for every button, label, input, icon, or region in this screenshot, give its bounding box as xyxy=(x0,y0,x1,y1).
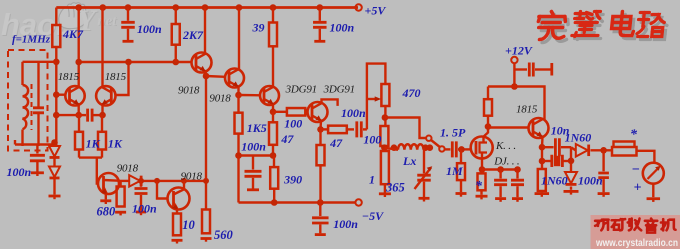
transistor Q6 3DG91 xyxy=(308,102,328,122)
svg-text:1M: 1M xyxy=(446,164,463,178)
rail junction Q1 collector xyxy=(75,4,82,11)
node -5V bypass xyxy=(317,199,324,206)
wire switch to C 1.5P xyxy=(445,148,451,150)
svg-text:1K5: 1K5 xyxy=(247,121,267,135)
variable capacitor 365 xyxy=(423,148,425,174)
resistor mid box xyxy=(380,126,388,146)
capacitor C4 100n xyxy=(252,156,254,170)
capacitor +12V bypass xyxy=(514,68,527,70)
wire collector column x206 xyxy=(205,76,207,210)
svg-text:1N60: 1N60 xyxy=(565,131,592,145)
resistor 1M xyxy=(460,149,462,163)
svg-text:9018: 9018 xyxy=(181,171,203,183)
capacitor C1 100n xyxy=(127,8,129,21)
svg-text:1815: 1815 xyxy=(58,71,80,83)
+12V terminal xyxy=(511,57,517,63)
svg-text:470: 470 xyxy=(402,86,421,100)
wire xtal top branch xyxy=(542,146,554,148)
svg-text:9018: 9018 xyxy=(117,163,139,175)
capacitor 100 xyxy=(347,128,354,130)
wire diode to Q9 xyxy=(143,180,208,182)
svg-text:100: 100 xyxy=(284,116,302,130)
svg-text:*: * xyxy=(475,179,483,194)
node +12V xyxy=(511,83,518,90)
rail junction R 2K7 xyxy=(172,4,179,11)
transistor Q2 1815 xyxy=(96,86,115,105)
wire 4K7 to bias column xyxy=(55,47,57,145)
node source bus xyxy=(479,166,486,173)
node FET gate xyxy=(458,146,465,153)
resistor 2K7 xyxy=(175,8,177,25)
wire Q5-Q6 base link xyxy=(273,111,287,113)
inductor L1 coil xyxy=(21,62,23,85)
resistor 1K5 xyxy=(237,95,239,113)
svg-text:390: 390 xyxy=(283,172,302,186)
node xtal B xyxy=(539,158,546,165)
resistor xtal bias xyxy=(538,169,546,191)
wire pot output to switch xyxy=(385,118,426,139)
wire Q7 emitter drop xyxy=(541,137,544,147)
capacitor 100n (tank bottom) xyxy=(36,145,38,154)
svg-text:680: 680 xyxy=(97,205,117,219)
wire Q2 emitter xyxy=(101,105,103,116)
node 2K7 bottom xyxy=(172,59,179,66)
wire 1K common bus xyxy=(79,156,102,158)
wire Q9 base drop xyxy=(157,181,168,199)
svg-text:100n: 100n xyxy=(330,21,355,35)
tank top wire xyxy=(23,61,57,63)
transistor Q3 9018 xyxy=(192,53,212,73)
resistor 680 xyxy=(119,181,121,187)
wire Q2 collector riser xyxy=(101,8,103,88)
tank bottom wire xyxy=(15,143,56,145)
wire to series diode xyxy=(571,147,576,150)
wire Q2 base riser xyxy=(116,62,129,95)
node Lx right xyxy=(427,144,434,151)
wire Q4-Q5 base link xyxy=(239,94,261,97)
svg-text:100n: 100n xyxy=(241,140,266,154)
wire Q4 emitter xyxy=(237,87,239,95)
svg-text:net: net xyxy=(97,13,117,29)
node C3 top xyxy=(138,178,144,184)
capacitor C5 100n bypass xyxy=(319,203,321,217)
+5V rail xyxy=(56,6,358,9)
svg-text:+5V: +5V xyxy=(365,4,387,18)
wire Q3 collector riser xyxy=(204,8,206,54)
wire collector cross-couple Q1 to Q3 base xyxy=(79,61,192,63)
svg-text:47: 47 xyxy=(280,132,294,146)
svg-text:365: 365 xyxy=(385,181,405,195)
-5V terminal xyxy=(355,199,361,205)
svg-text:560: 560 xyxy=(214,228,234,242)
transistor Q8 9018 xyxy=(98,173,119,194)
watermark char 3 xyxy=(645,219,657,233)
+5V terminal xyxy=(355,4,361,10)
node FET drain / Q7 base xyxy=(485,123,492,130)
resistor 47 second xyxy=(321,128,329,130)
wire Q4 collector riser xyxy=(238,8,240,70)
potentiometer 470 xyxy=(381,84,389,106)
node Q1 collector tap xyxy=(75,59,82,66)
watermark char 1 xyxy=(612,219,625,230)
wire bus2 -5V xyxy=(237,156,239,203)
svg-text:+12V: +12V xyxy=(505,44,533,58)
svg-text:1. 5P: 1. 5P xyxy=(440,126,466,140)
svg-text:f=1MHz: f=1MHz xyxy=(12,34,51,46)
node diode chain top xyxy=(51,139,58,146)
wire Q9 emitter xyxy=(176,209,178,214)
node emitter tie xyxy=(53,112,60,119)
node 560 top xyxy=(203,178,209,184)
wire bus to Q8 base xyxy=(97,158,98,184)
node Q4 emitter xyxy=(235,92,242,99)
wire Q9 collector riser xyxy=(183,181,185,189)
crystal element xyxy=(552,155,563,167)
switch lever xyxy=(431,140,440,147)
node Lx left xyxy=(383,146,385,148)
svg-text:1815: 1815 xyxy=(516,104,538,116)
svg-text:100n: 100n xyxy=(132,202,157,216)
capacitor C8 emitter-emitter xyxy=(79,114,86,116)
svg-text:1: 1 xyxy=(369,173,375,187)
resistor 1 xyxy=(381,151,389,184)
resistor 1K right xyxy=(101,115,103,132)
wire Q3 emitter xyxy=(204,71,207,76)
pot wiper arrow xyxy=(367,98,378,100)
svg-text:K. . .: K. . . xyxy=(495,140,516,152)
watermark char 0 xyxy=(595,220,608,231)
watermark haoDIY.net xyxy=(1,3,118,43)
node detector out xyxy=(600,147,607,154)
transistor Q4 9018 xyxy=(225,69,244,88)
capacitor src2 xyxy=(516,170,518,179)
svg-text:100n: 100n xyxy=(578,174,603,188)
svg-text:−: − xyxy=(632,163,640,178)
title char 电 xyxy=(614,15,639,39)
diode D3 xyxy=(129,175,140,187)
svg-text:1K: 1K xyxy=(108,137,123,151)
node bus1 right xyxy=(270,152,277,159)
node bus1 left xyxy=(235,152,242,159)
svg-text:9018: 9018 xyxy=(178,85,200,97)
title char 完 xyxy=(539,15,569,43)
title char 整 xyxy=(574,15,603,40)
watermark fist glyph xyxy=(59,3,88,29)
svg-text:4K7: 4K7 xyxy=(62,27,84,41)
capacitor src1 xyxy=(499,170,501,179)
FET K/DJ detector xyxy=(471,137,493,159)
wire Q6 collector stub xyxy=(322,99,338,106)
svg-text:100n: 100n xyxy=(341,106,366,120)
title 完整电路 xyxy=(536,12,668,43)
dashed box crystal tank xyxy=(8,50,48,151)
svg-text:DJ. . .: DJ. . . xyxy=(493,156,519,168)
node E1 xyxy=(75,112,82,119)
svg-text:3DG91: 3DG91 xyxy=(323,83,355,95)
svg-text:Lx: Lx xyxy=(402,154,416,168)
svg-text:www.crystalradio.cn: www.crystalradio.cn xyxy=(595,238,678,249)
svg-text:2K7: 2K7 xyxy=(182,28,204,42)
svg-text:39: 39 xyxy=(252,21,265,35)
node tank top / bias column xyxy=(53,59,60,66)
capacitor tank xyxy=(37,62,39,107)
node Q6 emitter xyxy=(317,126,324,133)
watermark box crystalradio xyxy=(591,215,680,249)
node Q9 collector xyxy=(181,178,187,184)
diode 1N60 series xyxy=(576,144,588,157)
node Q3 emitter xyxy=(203,73,210,80)
wire riser to pot top xyxy=(367,64,386,130)
wire FET source xyxy=(481,153,483,170)
node Q9 base xyxy=(154,178,160,184)
wire Q3-Q4 base link xyxy=(206,75,225,78)
node Q2 base tap xyxy=(125,59,132,66)
capacitor out 100n xyxy=(602,150,604,171)
svg-text:−5V: −5V xyxy=(362,209,384,223)
node pot output xyxy=(382,114,389,121)
resistor 10 xyxy=(173,214,181,236)
resistor 39 xyxy=(272,8,274,23)
wire xtal bottom branch xyxy=(542,160,552,162)
rail junction Q3 collector xyxy=(202,4,209,11)
rail junction R 39 xyxy=(270,4,277,11)
resistor Q7 feed xyxy=(484,99,492,116)
transistor Q5 3DG91 xyxy=(260,86,279,105)
node Q5 emitter xyxy=(270,109,277,116)
wire to coil xyxy=(384,148,398,150)
transistor Q7 1815 xyxy=(529,118,549,138)
wire Q1 collector riser xyxy=(77,8,79,88)
capacitor 10n xyxy=(555,138,559,156)
diode D2 bias xyxy=(53,157,55,167)
svg-text:1K: 1K xyxy=(86,137,101,151)
resistor 560 xyxy=(202,210,210,234)
node E2 xyxy=(99,112,106,119)
svg-text:47: 47 xyxy=(329,136,343,150)
transistor Q9 9018 xyxy=(168,188,190,210)
svg-text:9018: 9018 xyxy=(209,93,231,105)
node Q1 base xyxy=(53,91,60,98)
svg-text:+: + xyxy=(634,181,642,196)
svg-text:1815: 1815 xyxy=(105,71,127,83)
wire emitter tie left xyxy=(56,114,78,116)
title char 路 xyxy=(639,16,668,40)
wire Q1 base xyxy=(56,93,65,95)
node xtal A xyxy=(539,144,546,151)
transistor Q1 1815 xyxy=(65,86,84,105)
capacitor 1.5P xyxy=(452,141,456,157)
svg-text:100: 100 xyxy=(363,133,381,147)
capacitor C3 100n xyxy=(140,181,142,187)
wire pot to meter xyxy=(637,151,655,163)
inductor Lx xyxy=(398,144,424,150)
resistor 100 xyxy=(287,108,305,116)
wire Q8 collector line xyxy=(119,180,129,182)
wire +12V column xyxy=(513,63,515,86)
switch pad1 xyxy=(426,136,431,141)
svg-text:10: 10 xyxy=(182,218,195,232)
svg-text:3DG91: 3DG91 xyxy=(285,83,317,95)
svg-text:*: * xyxy=(630,128,638,143)
rail junction Q4 collector xyxy=(236,4,243,11)
wire Q7 base xyxy=(488,126,529,128)
rail junction Q2 collector xyxy=(100,4,107,11)
resistor source xyxy=(481,170,483,174)
svg-text:100n: 100n xyxy=(7,165,32,179)
svg-text:1N60: 1N60 xyxy=(541,174,568,188)
watermark char 2 xyxy=(628,219,641,231)
meter M1 xyxy=(643,163,664,184)
wire Q5 emitter xyxy=(272,105,274,112)
crystal right column xyxy=(570,147,572,172)
resistor 390 xyxy=(273,156,275,168)
wire bus1 xyxy=(239,154,274,156)
wire FET drain riser xyxy=(484,127,489,143)
diode 1N60 shunt xyxy=(565,172,577,183)
crystal filter left column xyxy=(541,147,543,169)
resistor 4K7 xyxy=(55,8,57,26)
rail junction C2 xyxy=(317,4,324,11)
node 390 bottom xyxy=(271,199,278,206)
svg-text:100n: 100n xyxy=(137,22,162,36)
wire Q8 emitter ground xyxy=(105,194,107,200)
rail junction C1 xyxy=(125,4,132,11)
node xtal C xyxy=(568,158,575,165)
potentiometer meter cal xyxy=(612,147,637,156)
wire Q6 emitter xyxy=(319,121,322,130)
svg-text:100n: 100n xyxy=(333,217,358,231)
switch pad2 xyxy=(439,146,444,151)
watermark char 4 xyxy=(661,219,676,230)
wire source bus xyxy=(482,168,518,170)
resistor 47 first xyxy=(272,112,274,123)
capacitor C2 100n xyxy=(319,8,321,21)
resistor Q6 emitter xyxy=(319,129,321,145)
wire meter ground xyxy=(652,184,654,198)
wire +12V rect xyxy=(488,87,545,121)
resistor 1K left xyxy=(78,115,80,132)
core dashed line xyxy=(31,84,33,130)
wire pot bottom xyxy=(384,106,386,126)
wire Q1 emitter xyxy=(77,105,79,116)
